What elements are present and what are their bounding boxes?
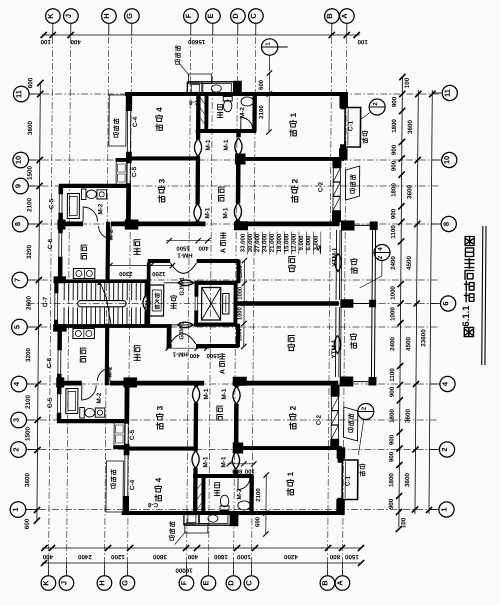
svg-text:1200: 1200 xyxy=(152,270,166,276)
svg-text:100: 100 xyxy=(400,517,407,528)
svg-text:HM-1: HM-1 xyxy=(172,351,188,358)
svg-text:6.1.1: 6.1.1 xyxy=(461,305,472,327)
svg-text:12.000: 12.000 xyxy=(292,233,298,252)
AC slab outside C-2 xyxy=(345,166,359,200)
svg-text:1: 1 xyxy=(286,471,295,476)
svg-text:2400: 2400 xyxy=(389,337,396,351)
svg-text:4500: 4500 xyxy=(405,337,412,352)
svg-text:800: 800 xyxy=(329,553,340,560)
svg-text:C-5: C-5 xyxy=(47,397,54,408)
svg-text:K: K xyxy=(41,580,50,586)
svg-text:100: 100 xyxy=(357,38,368,45)
kitchen door M-2 xyxy=(99,226,111,239)
svg-text:C-7: C-7 xyxy=(42,296,49,307)
svg-text:2: 2 xyxy=(361,406,368,410)
detail circle 1 at top bump xyxy=(261,39,278,55)
balcony divider columns xyxy=(341,300,354,308)
svg-text:C-6: C-6 xyxy=(47,238,54,249)
right dimension chain outer xyxy=(415,90,418,514)
svg-text:3600: 3600 xyxy=(407,120,414,135)
unit division wall xyxy=(237,302,339,306)
svg-text:2400: 2400 xyxy=(77,553,91,560)
fire hydrant cabinet xyxy=(150,285,164,316)
duct between bedroom4 and master bath xyxy=(196,94,200,131)
svg-text:1800: 1800 xyxy=(389,409,396,423)
master bath east wall xyxy=(253,94,257,131)
svg-text:C-8: C-8 xyxy=(147,501,158,508)
svg-text:27.000: 27.000 xyxy=(255,233,261,252)
right dimension chain inner xyxy=(399,77,403,527)
svg-text:C-2: C-2 xyxy=(316,414,323,425)
west exterior wall with windows C-5 C-6 xyxy=(59,187,63,194)
bottom entry step wall xyxy=(167,327,171,347)
svg-text:900: 900 xyxy=(391,96,398,107)
svg-text:11: 11 xyxy=(443,89,452,97)
svg-text:16000: 16000 xyxy=(175,567,193,574)
svg-text:2300: 2300 xyxy=(119,270,133,276)
svg-text:M-1: M-1 xyxy=(205,139,212,150)
svg-text:3200: 3200 xyxy=(25,348,32,363)
svg-text:15.000: 15.000 xyxy=(284,233,290,252)
svg-text:1800: 1800 xyxy=(213,553,227,560)
svg-text:A: A xyxy=(219,369,226,374)
room labels bottom unit xyxy=(155,495,162,502)
svg-text:1: 1 xyxy=(11,507,20,511)
svg-text:E: E xyxy=(206,13,215,18)
front room west wall xyxy=(147,263,151,327)
svg-text:YTM-1: YTM-1 xyxy=(331,339,338,358)
bedroom1/2 divider wall xyxy=(245,157,344,160)
svg-text:1: 1 xyxy=(265,42,272,46)
svg-text:4200: 4200 xyxy=(283,553,297,560)
svg-text:3600: 3600 xyxy=(27,121,34,136)
svg-text:M-2: M-2 xyxy=(239,107,246,118)
svg-text:18.000: 18.000 xyxy=(277,233,283,252)
svg-text:3: 3 xyxy=(157,178,166,183)
svg-text:M-2: M-2 xyxy=(108,229,115,240)
svg-text:400: 400 xyxy=(187,553,198,560)
svg-text:1800: 1800 xyxy=(391,119,398,133)
elevator counterweight xyxy=(223,294,230,315)
svg-text:21.000: 21.000 xyxy=(270,233,276,252)
svg-text:B: B xyxy=(325,13,334,19)
bedroom2 east wall with window C-2 cells xyxy=(333,159,341,168)
balcony door wall YTM-1 xyxy=(335,230,338,300)
bedroom3/4 divider wall xyxy=(129,157,198,161)
svg-text:A: A xyxy=(335,580,344,586)
dim 800/100 near bottom corridor xyxy=(227,463,255,465)
AC panel labels xyxy=(113,132,118,137)
svg-text:C-5: C-5 xyxy=(48,198,55,209)
svg-text:3600: 3600 xyxy=(406,185,413,200)
svg-text:1: 1 xyxy=(289,112,298,117)
svg-text:3800: 3800 xyxy=(152,553,166,560)
figure caption: 图6.1.1 标准层平面图 xyxy=(464,327,473,336)
axis bubbles top (letters) xyxy=(46,9,61,24)
FM-1 stair door xyxy=(143,294,150,311)
svg-text:2: 2 xyxy=(372,102,379,106)
svg-text:M-2: M-2 xyxy=(96,392,103,403)
svg-text:1000: 1000 xyxy=(237,307,243,320)
right total dimension 23600 xyxy=(429,90,432,514)
svg-text:M-1: M-1 xyxy=(222,207,229,218)
svg-text:23600: 23600 xyxy=(420,329,427,347)
bottom total dimension 16000 xyxy=(42,562,362,564)
svg-text:H: H xyxy=(102,13,111,18)
svg-text:M-1: M-1 xyxy=(203,388,210,399)
svg-text:33.000: 33.000 xyxy=(241,233,247,252)
svg-text:900: 900 xyxy=(391,144,398,155)
svg-text:5: 5 xyxy=(12,325,21,329)
svg-text:C-6: C-6 xyxy=(46,357,53,368)
svg-text:3600: 3600 xyxy=(404,473,411,488)
svg-text:1300: 1300 xyxy=(237,329,243,342)
AC slab above bump xyxy=(188,74,211,84)
svg-text:100: 100 xyxy=(40,38,51,45)
window C-5 inner (lightwell) on bedroom3 west wall xyxy=(126,163,128,184)
svg-text:D: D xyxy=(231,13,240,19)
svg-text:900: 900 xyxy=(389,386,396,397)
bottom dimension chain xyxy=(42,547,362,549)
svg-text:M-1: M-1 xyxy=(220,456,227,467)
bath door M-2 xyxy=(83,207,98,222)
east wall of bedroom1 and bay window C-1 xyxy=(340,92,348,108)
svg-text:1000: 1000 xyxy=(238,287,244,300)
svg-text:600: 600 xyxy=(24,518,31,529)
svg-text:E: E xyxy=(201,580,210,585)
svg-text:GJM-1: GJM-1 xyxy=(179,321,185,340)
svg-text:1800: 1800 xyxy=(390,183,397,197)
svg-text:1500: 1500 xyxy=(25,427,32,442)
svg-text:C-4: C-4 xyxy=(129,479,136,490)
corridor doors M-1 xyxy=(194,139,201,157)
svg-text:800: 800 xyxy=(232,467,243,473)
svg-text:9.000: 9.000 xyxy=(299,235,305,251)
caption double underline xyxy=(482,226,483,365)
axis-8 long interior wall xyxy=(60,222,83,226)
svg-text:K: K xyxy=(46,13,55,19)
svg-text:400: 400 xyxy=(70,38,81,45)
svg-text:M-2: M-2 xyxy=(107,366,114,377)
svg-text:1100: 1100 xyxy=(390,225,397,239)
svg-text:900: 900 xyxy=(388,498,395,509)
svg-text:C: C xyxy=(244,580,253,586)
svg-text:J: J xyxy=(59,581,68,585)
svg-text:FM-1: FM-1 xyxy=(145,294,151,308)
svg-text:A: A xyxy=(340,13,349,19)
svg-text:900: 900 xyxy=(388,451,395,462)
svg-text:3: 3 xyxy=(12,418,21,422)
svg-text:10: 10 xyxy=(14,156,23,164)
kitchen east wall xyxy=(106,222,110,283)
svg-text:600: 600 xyxy=(259,79,265,90)
svg-text:4: 4 xyxy=(440,381,449,386)
corridor east wall with door openings xyxy=(237,131,241,137)
elevator cab with X xyxy=(201,288,220,321)
axis bubbles left (numbers) xyxy=(13,86,29,102)
svg-text:3200: 3200 xyxy=(26,245,33,260)
lightwell niche with duct xyxy=(116,162,127,186)
svg-text:400: 400 xyxy=(189,352,200,358)
window C-8 in bump xyxy=(189,82,199,84)
interior chain 600/2100 beside bedroom1 xyxy=(268,73,270,132)
svg-text:3: 3 xyxy=(156,405,165,410)
svg-text:1500: 1500 xyxy=(206,352,220,358)
svg-text:HM-1: HM-1 xyxy=(177,252,193,259)
exterior wall on axis 11 (top) and axis 1 (bottom) xyxy=(125,92,347,96)
svg-text:G: G xyxy=(120,580,129,586)
entry wall with HM-1 opening (top unit) xyxy=(148,259,170,263)
svg-text:GJM-1: GJM-1 xyxy=(180,277,186,296)
corridor west wall with door openings xyxy=(196,131,200,139)
svg-text:F: F xyxy=(179,580,188,585)
svg-text:J: J xyxy=(64,14,73,18)
svg-text:600: 600 xyxy=(255,516,261,527)
svg-text:C: C xyxy=(249,13,258,19)
svg-text:1000: 1000 xyxy=(390,286,397,300)
svg-text:1500: 1500 xyxy=(176,245,190,251)
svg-text:2: 2 xyxy=(377,255,384,259)
master bath south wall xyxy=(196,129,256,133)
svg-text:3.000: 3.000 xyxy=(314,235,320,251)
svg-text:1000: 1000 xyxy=(389,307,396,321)
svg-text:24.000: 24.000 xyxy=(262,233,268,252)
svg-text:M-2: M-2 xyxy=(97,203,104,214)
stair treads and handrail xyxy=(63,283,65,300)
svg-text:C-5: C-5 xyxy=(129,429,136,440)
svg-text:100: 100 xyxy=(404,77,411,88)
svg-text:1500: 1500 xyxy=(344,553,358,560)
balcony slab and rail xyxy=(340,226,343,301)
svg-text:2100: 2100 xyxy=(26,198,33,213)
svg-text:M-1: M-1 xyxy=(221,388,228,399)
svg-text:H: H xyxy=(97,580,106,585)
balcony door swing xyxy=(335,254,342,272)
top dimension chain xyxy=(42,34,360,36)
svg-text:C-5: C-5 xyxy=(131,166,138,177)
svg-text:1: 1 xyxy=(439,507,448,511)
svg-text:2100: 2100 xyxy=(259,105,265,119)
svg-text:1800: 1800 xyxy=(388,473,395,487)
svg-text:G: G xyxy=(125,13,134,19)
bay window labels xyxy=(362,138,367,143)
svg-text:F: F xyxy=(184,13,193,18)
svg-text:C-8: C-8 xyxy=(189,99,200,106)
svg-text:C-2: C-2 xyxy=(317,181,324,192)
svg-text:2: 2 xyxy=(11,447,20,451)
svg-text:M-1: M-1 xyxy=(223,139,230,150)
svg-text:D: D xyxy=(226,580,235,586)
svg-text:4: 4 xyxy=(377,247,384,251)
svg-text:8: 8 xyxy=(13,222,22,226)
master bath fixtures xyxy=(223,97,232,102)
svg-text:M-2: M-2 xyxy=(236,488,243,499)
svg-text:4: 4 xyxy=(155,107,164,112)
svg-text:2: 2 xyxy=(440,447,449,451)
svg-text:C-1: C-1 xyxy=(347,120,354,131)
svg-text:900: 900 xyxy=(390,208,397,219)
svg-text:2400: 2400 xyxy=(390,256,397,270)
svg-text:1000: 1000 xyxy=(236,553,250,560)
svg-text:2100: 2100 xyxy=(25,395,32,410)
svg-text:600: 600 xyxy=(27,77,34,88)
detail circle 4/2 at balcony xyxy=(374,245,390,261)
svg-text:2100: 2100 xyxy=(256,488,262,502)
bottom bump bathroom block outline xyxy=(184,524,238,526)
svg-text:15600: 15600 xyxy=(187,38,205,45)
west wall of bedroom4 with window C-4 xyxy=(127,92,132,111)
air-conditioner slab outside C-4 xyxy=(109,95,126,146)
svg-text:A: A xyxy=(220,248,227,253)
master bath door M-2 xyxy=(241,117,253,129)
HM-1 entry door swings xyxy=(170,263,196,273)
svg-text:2: 2 xyxy=(290,178,299,183)
interior chain at elevator 1300/1000/1000/1300 xyxy=(243,261,246,347)
GJM-1 doors of front room xyxy=(164,282,195,284)
stair break line with arrow xyxy=(99,281,106,298)
svg-text:4: 4 xyxy=(154,477,163,482)
common bathroom fixtures xyxy=(67,194,79,219)
svg-text:YTM-1: YTM-1 xyxy=(331,247,338,266)
svg-text:2: 2 xyxy=(289,405,298,410)
svg-text:4500: 4500 xyxy=(406,256,413,271)
room labels top unit xyxy=(156,124,163,131)
svg-text:400: 400 xyxy=(198,245,209,251)
svg-text:M-1: M-1 xyxy=(204,207,211,218)
svg-text:1300: 1300 xyxy=(238,266,244,279)
svg-text:1200: 1200 xyxy=(110,553,124,560)
svg-text:4: 4 xyxy=(12,381,21,386)
svg-text:9: 9 xyxy=(14,184,23,188)
dim 1500/400 at entry door (bottom) xyxy=(165,347,210,349)
axis bubbles right (numbers) xyxy=(442,85,457,100)
bathroom north wall on axis 9 xyxy=(59,184,129,188)
svg-text:3600: 3600 xyxy=(24,473,31,488)
svg-text:1100: 1100 xyxy=(389,368,396,382)
svg-text:2600: 2600 xyxy=(26,296,33,311)
kitchen counter xyxy=(73,269,95,279)
svg-text:1500: 1500 xyxy=(27,166,34,181)
AC slab below bottom bump xyxy=(185,524,208,534)
svg-text:900: 900 xyxy=(389,434,396,445)
svg-text:C-1: C-1 xyxy=(345,475,352,486)
svg-text:100: 100 xyxy=(244,467,255,473)
svg-text:11: 11 xyxy=(14,90,23,98)
dim 1500/400 at entry door (top) xyxy=(166,240,211,242)
svg-text:30.000: 30.000 xyxy=(248,233,254,252)
svg-text:C-4: C-4 xyxy=(132,116,139,127)
svg-text:M-1: M-1 xyxy=(202,456,209,467)
svg-text:400: 400 xyxy=(42,553,53,560)
foyer west wall xyxy=(237,260,241,283)
detail circle at bottom bay window xyxy=(358,404,374,420)
svg-text:6.000: 6.000 xyxy=(306,235,312,251)
svg-text:7: 7 xyxy=(13,278,22,282)
svg-text:6: 6 xyxy=(441,301,450,305)
columns on axis 8 xyxy=(125,220,138,230)
svg-text:8: 8 xyxy=(442,222,451,226)
stair block walls xyxy=(55,280,148,283)
grid axis lines xyxy=(48,24,52,575)
dim 2300/1200 in dining (top only) xyxy=(109,265,174,267)
top bump bathroom block outline xyxy=(187,81,241,83)
svg-text:B: B xyxy=(320,580,329,586)
svg-text:900: 900 xyxy=(391,160,398,171)
elevator shaft xyxy=(195,281,238,285)
svg-text:3600: 3600 xyxy=(405,409,412,424)
detail circle 2 at top bay window xyxy=(369,99,385,115)
left dimension chain xyxy=(37,83,40,521)
svg-text:10: 10 xyxy=(442,156,451,164)
axis bubbles bottom (letters) xyxy=(41,576,56,591)
